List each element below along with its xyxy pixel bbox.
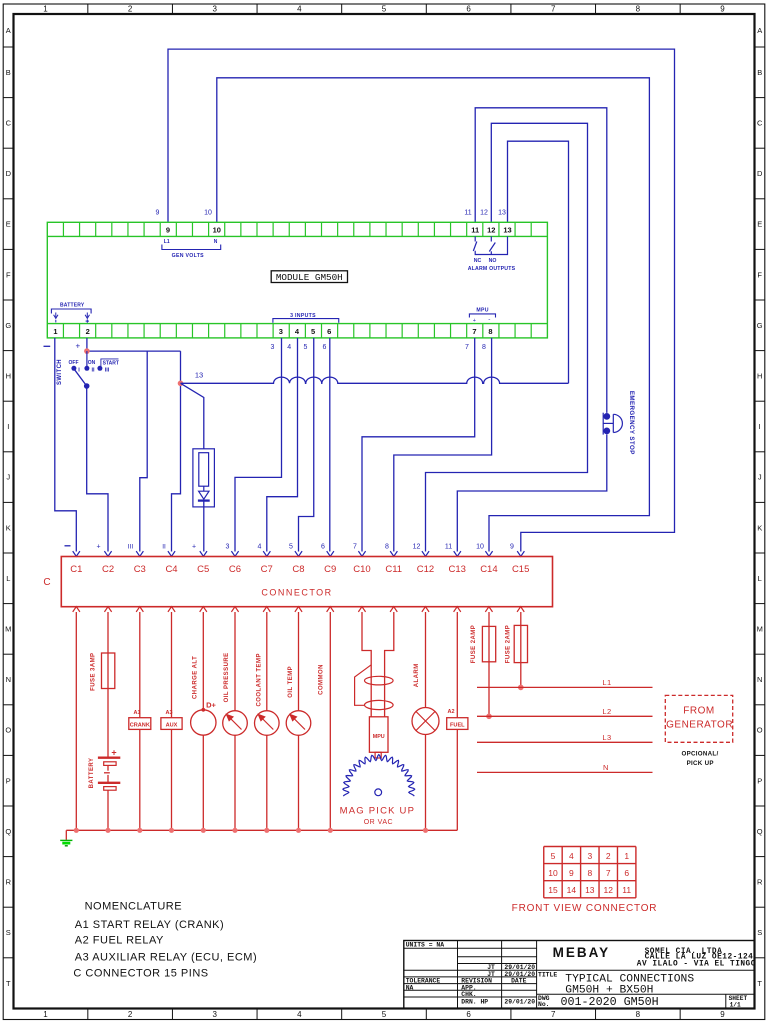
connector bottom arrows [73,607,80,612]
svg-text:A: A [6,26,11,35]
svg-text:8: 8 [587,868,592,878]
svg-text:6: 6 [466,5,471,14]
svg-text:001-2020 GM50H: 001-2020 GM50H [561,995,659,1009]
svg-text:8: 8 [636,5,641,14]
svg-text:MAG PICK UP: MAG PICK UP [340,806,416,817]
svg-text:5: 5 [289,544,293,551]
svg-text:OFF: OFF [69,360,79,366]
svg-text:3: 3 [226,544,230,551]
svg-text:E: E [757,220,762,229]
svg-text:2: 2 [128,5,133,14]
MPU pickup wires from C10, C11 [362,612,371,717]
alarm lamp on C12 [425,612,427,708]
svg-text:OIL TEMP: OIL TEMP [288,666,294,698]
svg-text:M: M [5,625,11,634]
svg-text:3: 3 [279,327,283,336]
svg-text:A1 START RELAY (CRANK): A1 START RELAY (CRANK) [75,919,224,931]
svg-text:L2: L2 [602,707,611,716]
svg-text:FUSE 3AMP: FUSE 3AMP [90,653,96,691]
svg-text:N: N [214,239,218,245]
svg-text:No.: No. [538,1001,550,1008]
svg-text:M: M [757,625,763,634]
svg-text:10: 10 [213,226,221,235]
svg-text:9: 9 [720,5,725,14]
svg-text:FUSE 2AMP: FUSE 2AMP [506,625,512,663]
ruler row ticks and letters [3,46,13,48]
svg-text:C3: C3 [134,564,146,575]
FROM GENERATOR box [665,695,732,742]
svg-text:+: + [75,342,80,351]
svg-text:J: J [758,473,762,482]
svg-text:B: B [757,68,762,77]
svg-text:GEN VOLTS: GEN VOLTS [172,253,205,259]
svg-text:J: J [6,473,10,482]
svg-text:8: 8 [636,1010,641,1019]
svg-text:C8: C8 [292,564,304,575]
svg-text:3: 3 [271,344,275,351]
ground bus junction dots [74,828,79,833]
svg-text:13: 13 [195,371,203,380]
svg-text:NO: NO [489,258,497,264]
svg-text:-: - [488,316,490,323]
svg-text:6: 6 [466,1010,471,1019]
svg-text:2: 2 [606,851,611,861]
svg-text:A: A [757,26,762,35]
svg-text:S: S [6,928,11,937]
svg-text:MPU: MPU [476,308,488,314]
svg-text:Q: Q [5,827,11,836]
svg-text:F: F [6,270,11,279]
coolant temp gauge on C7 [266,612,268,711]
svg-text:FUEL: FUEL [450,723,465,729]
svg-text:11: 11 [445,544,452,551]
svg-text:K: K [757,523,762,532]
svg-text:FUSE 2AMP: FUSE 2AMP [471,625,477,663]
svg-text:+: + [111,748,116,758]
svg-text:DRN. HP: DRN. HP [461,998,488,1005]
svg-text:7: 7 [472,327,476,336]
gear center circle [375,789,382,796]
svg-text:H: H [6,372,11,381]
fuse 2AMP on C14 to L2 [488,612,490,716]
svg-text:6: 6 [321,544,325,551]
svg-text:10: 10 [204,210,212,217]
svg-text:8: 8 [482,344,486,351]
svg-text:O: O [5,726,11,735]
wire node 13 down to connector C4 (II) [172,351,181,551]
svg-text:6: 6 [624,868,629,878]
svg-text:1: 1 [43,5,48,14]
svg-text:A3 AUXILIAR RELAY (ECU, ECM: A3 AUXILIAR RELAY (ECU, ECM) [75,952,257,964]
svg-text:BATTERY: BATTERY [60,303,85,309]
svg-text:ON: ON [88,360,96,366]
svg-text:12: 12 [480,210,488,217]
svg-text:AUX: AUX [166,723,178,729]
svg-text:D+: D+ [206,701,216,710]
svg-text:TITLE: TITLE [538,972,557,979]
wires module MPU 7,8 to connector C10,C11 [362,338,475,552]
svg-text:SWITCH: SWITCH [57,359,63,385]
svg-text:COOLANT TEMP: COOLANT TEMP [256,653,262,706]
switch arm [74,369,87,386]
node 13 junction [178,381,184,387]
svg-text:FROM: FROM [683,706,714,717]
svg-text:ALARM: ALARM [414,663,420,687]
fuse 2AMP on C15 to L1 [520,612,522,687]
svg-text:K: K [6,523,11,532]
svg-text:12: 12 [413,544,421,551]
svg-text:OR VAC: OR VAC [364,819,393,826]
svg-text:P: P [757,776,762,785]
ground symbol [65,830,67,840]
svg-text:5: 5 [382,5,387,14]
svg-text:OPCIONAL/: OPCIONAL/ [681,750,718,757]
svg-text:14: 14 [567,885,577,895]
svg-text:O: O [757,726,763,735]
svg-text:Q: Q [757,827,763,836]
relay A3 AUX on C4 [171,612,173,718]
svg-text:S: S [757,928,762,937]
svg-text:C: C [757,119,763,128]
module terminal strip lines [47,235,547,237]
MPU pole piece ellipses [365,676,394,685]
svg-text:4: 4 [569,851,574,861]
svg-text:L: L [758,574,762,583]
svg-text:+: + [96,544,100,551]
svg-text:III: III [105,367,110,373]
svg-text:B: B [6,68,11,77]
svg-text:15: 15 [548,885,558,895]
svg-text:12: 12 [487,226,495,235]
alarm output contacts NC / NO [474,236,476,241]
fuse 3AMP on C2 [107,612,109,758]
svg-text:1: 1 [624,851,629,861]
svg-text:NA: NA [406,984,414,991]
svg-text:START: START [103,360,119,366]
svg-text:7: 7 [465,344,469,351]
svg-text:3: 3 [213,1010,218,1019]
svg-text:11: 11 [471,226,479,235]
svg-text:C9: C9 [324,564,336,575]
svg-text:A2: A2 [447,709,454,715]
svg-text:7: 7 [353,544,357,551]
svg-text:12: 12 [604,885,614,895]
wire terminal 2 (battery +) [86,338,88,351]
svg-text:29/01/20: 29/01/20 [504,998,535,1005]
svg-text:C4: C4 [165,564,177,575]
svg-text:9: 9 [569,868,574,878]
svg-text:CONNECTOR: CONNECTOR [261,588,332,598]
gear wheel (blue) under MPU [343,755,415,797]
svg-text:NOMENCLATURE: NOMENCLATURE [85,900,182,912]
svg-text:L1: L1 [602,678,611,687]
svg-text:E: E [6,220,11,229]
svg-text:7: 7 [606,868,611,878]
svg-text:C15: C15 [512,564,529,575]
svg-text:BATTERY: BATTERY [89,758,95,789]
svg-text:GENERATOR: GENERATOR [666,719,733,730]
svg-text:C11: C11 [385,564,402,575]
svg-text:COMMON: COMMON [319,664,325,695]
svg-text:3: 3 [213,5,218,14]
svg-text:+: + [192,544,196,551]
svg-text:7: 7 [551,1010,556,1019]
svg-text:6: 6 [327,327,331,336]
wire 13 line with crossover hops [181,377,569,383]
svg-text:11: 11 [622,885,631,895]
svg-text:I: I [7,422,9,431]
svg-text:CHARGE ALT: CHARGE ALT [192,656,198,699]
wire: module terminal 12 loop to connector pin C12 [426,123,588,551]
resistor inside diode box [199,453,209,487]
svg-text:EMERGENCY STOP: EMERGENCY STOP [628,391,635,455]
svg-text:7: 7 [551,5,556,14]
svg-text:4: 4 [297,5,302,14]
svg-text:MODULE GM50H: MODULE GM50H [276,272,343,283]
module GM50H outline [47,222,547,338]
MPU horn bracket [355,665,372,706]
svg-text:C CONNECTOR 15 PINS: C CONNECTOR 15 PINS [73,967,208,979]
svg-text:L1: L1 [164,239,170,245]
battery polarity arrows - / + [55,313,57,318]
relay A2 FUEL on C13 [456,612,458,718]
svg-text:P: P [6,776,11,785]
svg-text:1: 1 [43,1010,48,1019]
module terminal cell dividers [62,222,64,236]
svg-text:C2: C2 [102,564,114,575]
svg-text:AV ILALO - VIA EL TINGO: AV ILALO - VIA EL TINGO [637,960,756,968]
MPU body box [369,717,388,753]
svg-text:2: 2 [128,1010,133,1019]
connector C (15 pins) body [61,557,552,607]
node: junction terminal 2 [84,348,90,354]
svg-text:C14: C14 [480,564,497,575]
svg-text:D: D [6,169,12,178]
svg-text:8: 8 [385,544,389,551]
ground bus [66,829,457,831]
emergency stop push button [603,413,610,420]
svg-text:T: T [757,979,762,988]
svg-text:G: G [5,321,11,330]
svg-text:C12: C12 [417,564,434,575]
svg-text:4: 4 [295,327,300,336]
svg-text:III: III [128,544,134,551]
svg-text:C10: C10 [353,564,370,575]
svg-text:+: + [473,318,476,324]
flyback diode assembly box [181,383,204,449]
svg-text:T: T [6,979,11,988]
svg-text:N: N [603,763,609,772]
svg-text:1: 1 [53,327,57,336]
svg-text:9: 9 [510,544,514,551]
wire diode box to connector C5 (+) [203,499,205,551]
generator lines L1 L2 L3 N [477,686,653,688]
svg-text:11: 11 [464,210,471,217]
svg-text:4: 4 [258,544,262,551]
svg-text:II: II [91,367,95,373]
svg-text:A3: A3 [165,710,172,716]
svg-text:5: 5 [304,344,308,351]
svg-text:C1: C1 [70,564,82,575]
svg-text:N: N [757,675,762,684]
wire branch to connector C3 (III) [140,351,147,551]
svg-text:H: H [757,372,762,381]
title block [404,941,755,1009]
svg-text:NC: NC [474,258,482,264]
svg-text:R: R [6,878,12,887]
svg-text:10: 10 [548,868,558,878]
svg-text:A2 FUEL RELAY: A2 FUEL RELAY [75,935,164,947]
common wire C9 [329,612,331,830]
svg-text:9: 9 [720,1010,725,1019]
wire: module terminal 11 loop (upper part, into emergency stop) [475,108,607,413]
wire: emergency stop to connector pin C13 [457,434,607,551]
oil pressure gauge on C6 [234,612,236,711]
svg-text:MEBAY: MEBAY [553,945,611,960]
svg-text:PICK UP: PICK UP [687,760,714,767]
svg-text:L3: L3 [602,733,611,742]
wire terminal 1 (battery -) to connector C1 [55,338,77,552]
svg-text:C13: C13 [448,564,465,575]
wire switch common to connector C2 [87,386,108,552]
ruler column ticks and numbers [87,4,89,14]
svg-text:13: 13 [585,885,595,895]
svg-text:6: 6 [323,344,327,351]
svg-text:UNITS = NA: UNITS = NA [406,942,445,949]
front view connector grid [544,846,636,848]
wire: module terminal 9 loop to connector pin C15 [168,49,675,551]
svg-text:5: 5 [311,327,315,336]
battery [98,757,120,759]
svg-text:CHK.: CHK. [461,991,476,998]
key switch OFF ON START [86,351,88,368]
svg-text:F: F [757,270,762,279]
svg-text:2: 2 [86,327,90,336]
wire C1 to ground bus [75,612,77,830]
wires module inputs 3-6 to connector C6-C9 [235,338,282,552]
svg-text:CRANK: CRANK [130,723,150,729]
svg-text:13: 13 [503,226,511,235]
wire: module terminal 13 loop down to node 13 line [508,141,569,383]
svg-text:C: C [6,119,12,128]
svg-text:4: 4 [297,1010,302,1019]
svg-text:8: 8 [488,327,492,336]
GEN VOLTS bracket [162,245,221,250]
oil temp gauge on C8 [298,612,300,711]
svg-text:R: R [757,878,763,887]
svg-text:N: N [6,675,11,684]
charge alternator D+ on C5 [202,612,204,710]
svg-text:OIL PRESSURE: OIL PRESSURE [224,652,230,702]
wire: module terminal 10 loop to connector pin C14 [217,78,650,552]
svg-text:3: 3 [587,851,592,861]
svg-text:1/1: 1/1 [730,1002,741,1009]
svg-text:ALARM OUTPUTS: ALARM OUTPUTS [468,266,516,272]
svg-text:DATE: DATE [511,978,527,985]
svg-text:II: II [162,544,166,551]
svg-text:I: I [759,422,761,431]
relay A1 CRANK on C3 [139,612,141,718]
zener diode [203,486,205,491]
svg-text:13: 13 [498,210,506,217]
svg-text:4: 4 [287,344,291,351]
svg-text:5: 5 [382,1010,387,1019]
svg-text:G: G [757,321,763,330]
svg-text:9: 9 [166,226,170,235]
svg-text:A1: A1 [133,710,140,716]
svg-text:9: 9 [156,210,160,217]
svg-text:I: I [78,367,80,373]
svg-text:FRONT VIEW CONNECTOR: FRONT VIEW CONNECTOR [512,903,658,914]
svg-text:D: D [757,169,763,178]
svg-text:L: L [6,574,10,583]
svg-text:C7: C7 [261,564,273,575]
svg-text:10: 10 [476,544,484,551]
MODULE GM50H label box [271,271,347,283]
svg-text:MPU: MPU [373,734,385,740]
svg-text:C6: C6 [229,564,241,575]
svg-text:5: 5 [551,851,556,861]
svg-text:C: C [43,577,50,588]
svg-text:C5: C5 [197,564,209,575]
